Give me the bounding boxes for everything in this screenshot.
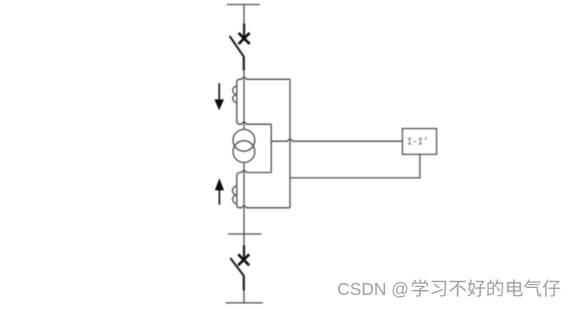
switch QS2 blade — [230, 258, 243, 276]
arrow I1 (current direction down) — [214, 83, 224, 110]
relay box KD (differential relay) — [403, 129, 437, 155]
wire (drop to transformer) — [243, 70, 245, 129]
current transformer CT1 (coil) — [233, 82, 237, 122]
wire (transformer to lower switch) — [243, 163, 245, 246]
wire (top feeder drop) — [243, 5, 245, 25]
arrow I2 (current direction up) — [215, 178, 224, 204]
busbar (bottom load bar) — [226, 302, 263, 304]
wire CT2 secondary top lead with hop over primary — [237, 171, 271, 176]
transformer T1 primary winding — [233, 129, 255, 151]
switch QS2 terminal stub (upper) — [243, 245, 245, 259]
wire CT2 secondary bottom lead with hop over primary — [237, 205, 290, 208]
busbar (top source bar) — [227, 4, 260, 6]
circuit breaker QF1 (X symbol) — [239, 33, 250, 44]
wire (differential loop right branch V2) — [289, 79, 291, 208]
svg-text:I-I’: I-I’ — [406, 137, 428, 149]
switch QS2 terminal stub (lower) — [243, 275, 245, 290]
wire CT1 secondary top lead with hop over primary — [237, 77, 290, 82]
wire (lower switch to bottom bar) — [243, 291, 245, 303]
wire (differential loop left branch V1) — [270, 124, 272, 172]
wire (relay return lead) — [290, 154, 420, 178]
transformer T1 secondary winding — [233, 141, 255, 163]
circuit breaker QF2 (X symbol) — [238, 254, 249, 265]
node (T-bar above lower switch) — [228, 233, 261, 235]
switch QS1 terminal stub (lower) — [243, 56, 245, 70]
switch QS1 terminal stub (upper) — [243, 24, 245, 39]
wire CT1 secondary bottom lead with hop over primary — [237, 121, 271, 124]
svg-text:CSDN @: CSDN @ — [337, 279, 409, 299]
watermark Chinese handle — [413, 280, 562, 298]
current transformer CT2 (coil) — [232, 175, 236, 205]
switch QS1 blade — [230, 36, 244, 57]
wire (relay lead with hop over V2) — [271, 139, 402, 141]
